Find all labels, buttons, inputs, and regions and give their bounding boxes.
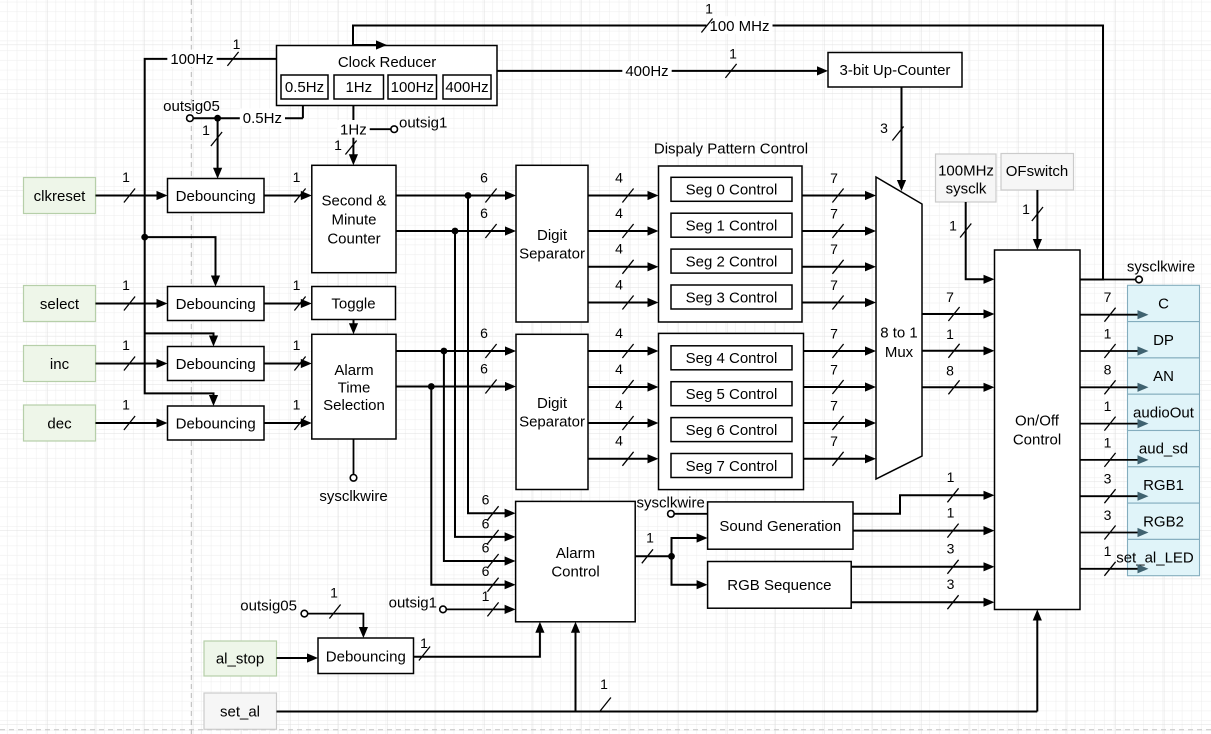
wire 100 MHz feedback from On/Off Control to Clock Reducer (353, 26, 1103, 280)
block U15 Sound Generation (708, 502, 853, 549)
input port select (24, 286, 96, 322)
block Seg 6 Control (671, 418, 792, 442)
bus width 3 on RGB1 wire (947, 540, 959, 573)
bus width 1 on debounced select wire (293, 277, 306, 311)
svg-text:100MHz: 100MHz (938, 162, 994, 179)
svg-text:1: 1 (1104, 398, 1112, 414)
bus width 7 on C wire (1104, 289, 1116, 322)
svg-text:3: 3 (947, 576, 955, 592)
svg-text:1: 1 (293, 277, 301, 293)
svg-text:outsig05: outsig05 (163, 98, 220, 115)
svg-text:0.5Hz: 0.5Hz (243, 110, 282, 127)
svg-text:0.5Hz: 0.5Hz (285, 79, 324, 96)
wire set_al_LED from On/Off Control (1080, 564, 1149, 573)
wire digit 5 nibble to Seg 5 Control (588, 382, 659, 391)
bus width 1 on mux dp output (946, 326, 959, 358)
svg-text:Alarm: Alarm (556, 545, 595, 562)
svg-text:1: 1 (330, 584, 338, 600)
output port AN (1128, 358, 1200, 394)
svg-text:Second &: Second & (321, 192, 386, 209)
wire minutes bus from counter to Digit Separator (396, 226, 516, 235)
svg-text:3: 3 (1104, 507, 1112, 523)
wire AN from On/Off Control (1080, 383, 1149, 392)
block U14 Alarm Control (516, 501, 636, 621)
bus width 3 on RGB1 wire (1104, 471, 1116, 504)
junction alarm minutes bus (428, 383, 435, 390)
node outsig05 input terminal for Debouncing U7 (240, 597, 368, 638)
node sysclkwire input of Sound Generation (637, 494, 708, 517)
junction alarm seconds bus (441, 348, 448, 355)
svg-text:4: 4 (615, 361, 623, 377)
bus width 4 on digit 3 wire (615, 276, 633, 309)
svg-text:400Hz: 400Hz (445, 79, 488, 96)
svg-text:1: 1 (202, 122, 210, 138)
svg-text:7: 7 (830, 277, 838, 293)
block 0.5Hz divider output (281, 75, 328, 99)
wire 0.5Hz from Clock Reducer to outsig05 (193, 106, 303, 119)
block U2 3-bit Up-Counter (828, 53, 962, 88)
wire mux output dp to On/Off Control (922, 346, 995, 355)
wire alarm trigger to RGB Sequence (672, 556, 708, 589)
svg-text:3: 3 (1104, 471, 1112, 487)
group container Seg 4-7 controls (659, 333, 804, 489)
svg-text:1: 1 (122, 169, 130, 185)
block Seg 3 Control (671, 285, 792, 309)
svg-text:6: 6 (480, 205, 488, 221)
svg-text:Debouncing: Debouncing (176, 356, 256, 373)
svg-text:Mux: Mux (885, 344, 914, 361)
svg-text:Seg 3 Control: Seg 3 Control (686, 289, 778, 306)
svg-text:1: 1 (729, 45, 737, 61)
wire 100Hz branch to Debouncing U5 (145, 333, 218, 346)
svg-text:RGB Sequence: RGB Sequence (727, 577, 831, 594)
svg-text:Seg 4 Control: Seg 4 Control (686, 350, 778, 367)
svg-text:Toggle: Toggle (331, 295, 375, 312)
bus width 8 on mux anode output (946, 362, 959, 394)
bus width 3 on mux select wire (880, 120, 903, 141)
block Debouncing U7 (318, 638, 414, 674)
wire seconds bus from counter to Digit Separator (396, 191, 516, 200)
svg-text:dec: dec (47, 415, 72, 432)
svg-text:100Hz: 100Hz (391, 79, 434, 96)
wire digit 2 nibble to Seg 2 Control (588, 262, 659, 271)
svg-text:Clock Reducer: Clock Reducer (338, 54, 436, 71)
output port RGB2 (1128, 503, 1200, 539)
wire debounced clkreset (264, 191, 312, 200)
block 100Hz divider output (388, 75, 437, 99)
wire 400Hz from Clock Reducer to 3-bit Up-Counter (497, 66, 828, 75)
wire inc to debouncer (96, 359, 168, 368)
block U17 On/Off Control (995, 250, 1081, 610)
svg-text:6: 6 (482, 539, 490, 555)
junction on 100Hz wire (141, 234, 148, 241)
bus width 1 on audioOut wire (947, 469, 959, 502)
wire alarm seconds bus to lower Digit Separator (396, 346, 516, 355)
block U16 RGB Sequence (708, 562, 852, 609)
bus width 1 on sysclk wire (949, 217, 971, 237)
wire digit 0 nibble to Seg 0 Control (588, 191, 659, 200)
svg-text:Alarm: Alarm (334, 362, 373, 379)
block Seg 2 Control (671, 249, 792, 273)
svg-text:1: 1 (293, 337, 301, 353)
bus width 4 on digit 2 wire (615, 241, 633, 274)
wire 1Hz from Clock Reducer to Second & Minute Counter (349, 106, 358, 166)
svg-text:Debouncing: Debouncing (176, 188, 256, 205)
svg-text:clkreset: clkreset (34, 188, 87, 205)
wire digit 4 nibble to Seg 4 Control (588, 346, 659, 355)
wire RGB2 from On/Off Control (1080, 528, 1149, 537)
bus width 1 on aud_sd wire (1104, 434, 1116, 467)
wire clkreset to debouncer (96, 191, 168, 200)
svg-text:1: 1 (705, 0, 713, 16)
wire bus branch 2 to Alarm Control (455, 231, 516, 542)
wire Toggle to Alarm Time Selection (349, 320, 358, 335)
input port dec (24, 405, 96, 441)
label net 0.5Hz (240, 109, 285, 128)
block U9 Toggle (312, 287, 396, 320)
svg-text:4: 4 (615, 325, 623, 341)
node sysclkwire input of Alarm Time Selection (319, 439, 387, 505)
bus width 7 on Seg 4 pattern wire (830, 325, 843, 358)
svg-text:1: 1 (122, 277, 130, 293)
label net 100 MHz (706, 16, 772, 35)
bus width 7 on Seg 1 pattern wire (830, 205, 843, 238)
wire mux output anode bus to On/Off Control (922, 383, 995, 392)
bus width 1 on debounced clkreset wire (293, 169, 306, 203)
svg-text:7: 7 (830, 205, 838, 221)
output port set_al_LED (1116, 539, 1199, 575)
block Seg 1 Control (671, 213, 792, 237)
wire Seg 0 pattern to mux input 0 (802, 191, 876, 200)
bus width 1 on set_al_LED wire (1104, 543, 1116, 576)
svg-text:Debouncing: Debouncing (176, 415, 256, 432)
bus width 6 on alarm seconds bus (480, 325, 496, 358)
junction minutes bus (452, 228, 459, 235)
svg-text:Time: Time (338, 379, 371, 396)
bus width 6 on minutes bus (480, 205, 496, 238)
block Debouncing U4 (168, 287, 265, 321)
node outsig1 input terminal of Alarm Control (389, 594, 516, 614)
svg-text:1Hz: 1Hz (340, 122, 367, 139)
wire select to debouncer (96, 299, 168, 308)
bus width 8 on AN wire (1104, 362, 1116, 395)
wire digit 7 nibble to Seg 7 Control (588, 454, 659, 463)
svg-text:Seg 6 Control: Seg 6 Control (686, 422, 778, 439)
svg-text:outsig05: outsig05 (240, 597, 297, 614)
svg-text:1: 1 (122, 396, 130, 412)
block U1 Clock Reducer (277, 46, 498, 106)
wire al_stop to debouncer (277, 653, 319, 662)
svg-text:4: 4 (615, 241, 623, 257)
bus width 6 on Alarm Control input 2 (482, 515, 499, 544)
wire debounced al_stop to Alarm Control (414, 622, 545, 657)
bus width 4 on digit 1 wire (615, 205, 633, 238)
svg-text:Control: Control (1013, 431, 1061, 448)
label box OFswitch input (1001, 154, 1074, 191)
svg-text:7: 7 (830, 325, 838, 341)
svg-text:1: 1 (293, 169, 301, 185)
svg-text:4: 4 (615, 397, 623, 413)
input port clkreset (24, 178, 96, 214)
junction alarm trigger (668, 553, 675, 560)
bus width 1 on debounced dec wire (293, 396, 306, 430)
bus width 1 on DP wire (1104, 325, 1116, 358)
bus width 4 on digit 0 wire (615, 169, 633, 202)
svg-text:1: 1 (600, 676, 608, 692)
bus width 4 on digit 7 wire (615, 433, 633, 466)
block Seg 4 Control (671, 346, 792, 370)
wire digit 6 nibble to Seg 6 Control (588, 418, 659, 427)
bus width 1 on 100 MHz wire (701, 0, 713, 32)
bus width 7 on Seg 0 pattern wire (830, 170, 843, 203)
output port aud_sd (1128, 431, 1200, 467)
svg-text:8 to 1: 8 to 1 (880, 324, 918, 341)
svg-text:On/Off: On/Off (1015, 412, 1060, 429)
wire mux output segment bus to On/Off Control (922, 309, 995, 318)
bus width 1 on dec wire (122, 396, 135, 430)
block Debouncing U6 (168, 406, 265, 440)
wire RGB1 bus from RGB Sequence to On/Off Control (851, 562, 994, 571)
bus width 1 on aud_sd wire (947, 504, 959, 537)
bus width 6 on Alarm Control input 3 (482, 539, 499, 568)
svg-text:7: 7 (830, 241, 838, 257)
svg-text:6: 6 (482, 563, 490, 579)
wire aud_sd from On/Off Control (1080, 455, 1149, 464)
node sysclkwire output terminal (1103, 258, 1195, 283)
bus width 1 on inc wire (122, 337, 135, 371)
svg-text:1: 1 (122, 337, 130, 353)
wire Seg 2 pattern to mux input 2 (802, 262, 876, 271)
wire 100Hz branch to Debouncing U4 (145, 237, 220, 286)
wire debounced inc (264, 359, 312, 368)
wire digit 3 nibble to Seg 3 Control (588, 298, 659, 307)
svg-text:3: 3 (947, 540, 955, 556)
svg-text:OFswitch: OFswitch (1006, 163, 1069, 180)
svg-text:sysclkwire: sysclkwire (1127, 258, 1195, 275)
svg-text:7: 7 (830, 433, 838, 449)
wire alarm trigger output (635, 555, 671, 557)
input port inc (24, 346, 96, 382)
svg-text:7: 7 (830, 397, 838, 413)
output port RGB1 (1128, 467, 1200, 503)
block Debouncing U3 (168, 179, 265, 213)
block Seg 7 Control (671, 454, 792, 478)
wire bus branch 4 to Alarm Control (431, 387, 515, 590)
svg-text:Control: Control (551, 563, 599, 580)
svg-text:1: 1 (947, 469, 955, 485)
wire C from On/Off Control (1080, 310, 1149, 319)
bus width 3 on RGB2 wire (947, 576, 959, 609)
bus width 1 on select wire (122, 277, 135, 311)
bus width 1 on 400Hz wire (725, 45, 737, 78)
svg-text:Seg 1 Control: Seg 1 Control (686, 217, 778, 234)
input port al_stop (204, 641, 277, 676)
svg-text:Debouncing: Debouncing (326, 648, 406, 665)
wire alarm trigger to Sound Generation (672, 533, 708, 556)
svg-text:RGB1: RGB1 (1143, 477, 1184, 494)
group container Seg 0-3 controls (659, 166, 803, 322)
svg-text:RGB2: RGB2 (1143, 513, 1184, 530)
svg-text:1: 1 (1104, 543, 1112, 559)
svg-text:Counter: Counter (327, 230, 380, 247)
wire Seg 1 pattern to mux input 1 (802, 226, 876, 235)
label Dispaly Pattern Control group title (654, 140, 808, 157)
svg-text:aud_sd: aud_sd (1139, 441, 1188, 458)
wire debounced dec (264, 418, 312, 427)
svg-text:1: 1 (947, 504, 955, 520)
svg-text:4: 4 (615, 433, 623, 449)
bus width 1 on audioOut wire (1104, 398, 1116, 431)
output port C (1128, 285, 1200, 321)
svg-text:1: 1 (1022, 201, 1030, 217)
svg-text:Minute: Minute (331, 211, 376, 228)
svg-text:6: 6 (480, 169, 488, 185)
block 400Hz divider output (443, 75, 491, 99)
wire 0.5Hz to Debouncing U3 clock (213, 118, 222, 179)
svg-text:8: 8 (1104, 362, 1112, 378)
bus width 4 on digit 5 wire (615, 361, 633, 394)
svg-text:Seg 0 Control: Seg 0 Control (686, 182, 778, 199)
bus width 1 on set_al wire (600, 676, 611, 712)
block U8 Second & Minute Counter (312, 165, 396, 272)
svg-text:inc: inc (50, 356, 70, 373)
svg-text:1: 1 (334, 137, 342, 153)
svg-text:100Hz: 100Hz (170, 51, 213, 68)
wire RGB2 bus from RGB Sequence to On/Off Control (851, 598, 994, 607)
svg-text:outsig1: outsig1 (389, 594, 437, 611)
bus width 7 on Seg 6 pattern wire (830, 397, 843, 430)
wire Seg 7 pattern to mux input 7 (804, 454, 877, 463)
svg-text:al_stop: al_stop (216, 651, 264, 668)
svg-text:outsig1: outsig1 (399, 114, 447, 131)
svg-text:set_al_LED: set_al_LED (1116, 550, 1194, 567)
wire RGB1 from On/Off Control (1080, 492, 1149, 501)
svg-text:1: 1 (946, 326, 954, 342)
bus width 1 on OFswitch wire (1022, 201, 1043, 221)
svg-text:Digit: Digit (537, 395, 568, 412)
wire set_al to Alarm Control and On/Off Control (277, 610, 1042, 712)
block U12 Digit Separator (alarm) (516, 334, 588, 489)
bus width 7 on Seg 3 pattern wire (830, 277, 843, 310)
bus width 6 on seconds bus (480, 169, 496, 202)
bus width 1 on 0.5Hz wire (202, 122, 222, 146)
svg-text:Digit: Digit (537, 227, 568, 244)
svg-text:1: 1 (1104, 325, 1112, 341)
wire aud_sd from Sound Generation to On/Off Control (853, 526, 995, 535)
bus width 3 on RGB2 wire (1104, 507, 1116, 540)
svg-text:4: 4 (615, 169, 623, 185)
wire Seg 6 pattern to mux input 6 (804, 418, 877, 427)
svg-text:set_al: set_al (220, 703, 260, 720)
wire audioOut from Sound Generation to On/Off Control (853, 491, 995, 514)
wire alarm minutes bus to lower Digit Separator (396, 382, 516, 391)
bus width 1 on 100Hz wire (227, 36, 240, 66)
label net 100Hz (167, 50, 216, 69)
svg-text:1: 1 (1104, 434, 1112, 450)
bus width 1 on 1Hz wire (334, 137, 356, 155)
block Debouncing U5 (168, 347, 265, 381)
svg-text:Debouncing: Debouncing (176, 296, 256, 313)
svg-text:8: 8 (946, 362, 954, 378)
bus width 6 on alarm minutes bus (480, 360, 496, 393)
svg-text:1: 1 (482, 588, 490, 604)
svg-text:4: 4 (615, 205, 623, 221)
wire Seg 4 pattern to mux input 4 (804, 346, 877, 355)
svg-text:1: 1 (233, 36, 241, 52)
block Seg 5 Control (671, 382, 792, 406)
bus width 1 on clkreset wire (122, 169, 135, 203)
svg-text:7: 7 (830, 361, 838, 377)
svg-text:audioOut: audioOut (1133, 404, 1195, 421)
svg-text:Separator: Separator (519, 413, 585, 430)
bus width 7 on mux segment output (946, 289, 959, 321)
svg-text:1: 1 (949, 217, 957, 233)
svg-text:1: 1 (420, 635, 428, 651)
svg-text:6: 6 (482, 515, 490, 531)
svg-text:sysclk: sysclk (946, 180, 987, 197)
svg-text:7: 7 (830, 170, 838, 186)
svg-text:Seg 5 Control: Seg 5 Control (686, 386, 778, 403)
wire 100Hz from Clock Reducer to debouncer clocks (145, 59, 277, 406)
svg-text:7: 7 (946, 289, 954, 305)
svg-text:1: 1 (646, 529, 654, 545)
bus width 4 on digit 4 wire (615, 325, 633, 358)
bus width 6 on Alarm Control input 4 (482, 563, 499, 592)
bus width 1 on debounced inc wire (293, 337, 306, 371)
svg-text:Dispaly Pattern Control: Dispaly Pattern Control (654, 140, 808, 157)
node outsig1 terminal (353, 114, 447, 132)
wire audioOut from On/Off Control (1080, 419, 1149, 428)
svg-text:Seg 7 Control: Seg 7 Control (686, 458, 778, 475)
svg-text:C: C (1158, 295, 1169, 312)
mux U13 8 to 1 Mux (876, 177, 922, 479)
svg-text:sysclkwire: sysclkwire (319, 488, 387, 505)
svg-text:1Hz: 1Hz (345, 79, 372, 96)
wire DP from On/Off Control (1080, 346, 1149, 355)
svg-text:AN: AN (1153, 368, 1174, 385)
bus width 1 on alarm trigger (642, 529, 654, 563)
svg-text:3-bit Up-Counter: 3-bit Up-Counter (840, 62, 951, 79)
svg-text:sysclkwire: sysclkwire (637, 494, 705, 511)
svg-text:Selection: Selection (323, 397, 385, 414)
svg-text:7: 7 (1104, 289, 1112, 305)
bus width 4 on digit 6 wire (615, 397, 633, 430)
svg-text:Seg 2 Control: Seg 2 Control (686, 253, 778, 270)
svg-text:3: 3 (880, 120, 888, 136)
block U11 Digit Separator (time) (516, 165, 588, 322)
wire bus branch 1 to Alarm Control (468, 196, 516, 518)
svg-text:6: 6 (480, 325, 488, 341)
svg-text:6: 6 (480, 360, 488, 376)
bus width 1 on outsig1 wire (482, 588, 499, 617)
input port set_al (204, 693, 277, 729)
wire dec to debouncer (96, 418, 168, 427)
svg-text:Sound Generation: Sound Generation (719, 518, 841, 535)
svg-text:DP: DP (1153, 332, 1174, 349)
svg-text:6: 6 (482, 492, 490, 508)
label net 1Hz (337, 120, 370, 139)
wire OFswitch to On/Off Control (1033, 190, 1042, 250)
bus width 7 on Seg 5 pattern wire (830, 361, 843, 394)
wire digit 1 nibble to Seg 1 Control (588, 226, 659, 235)
wire debounced select (264, 299, 312, 308)
bus width 7 on Seg 2 pattern wire (830, 241, 843, 274)
output port audioOut (1128, 394, 1200, 430)
block Seg 0 Control (671, 177, 792, 201)
bus width 1 on outsig05 wire (329, 584, 340, 618)
label net 400Hz (622, 62, 671, 81)
svg-text:100 MHz: 100 MHz (709, 18, 769, 35)
